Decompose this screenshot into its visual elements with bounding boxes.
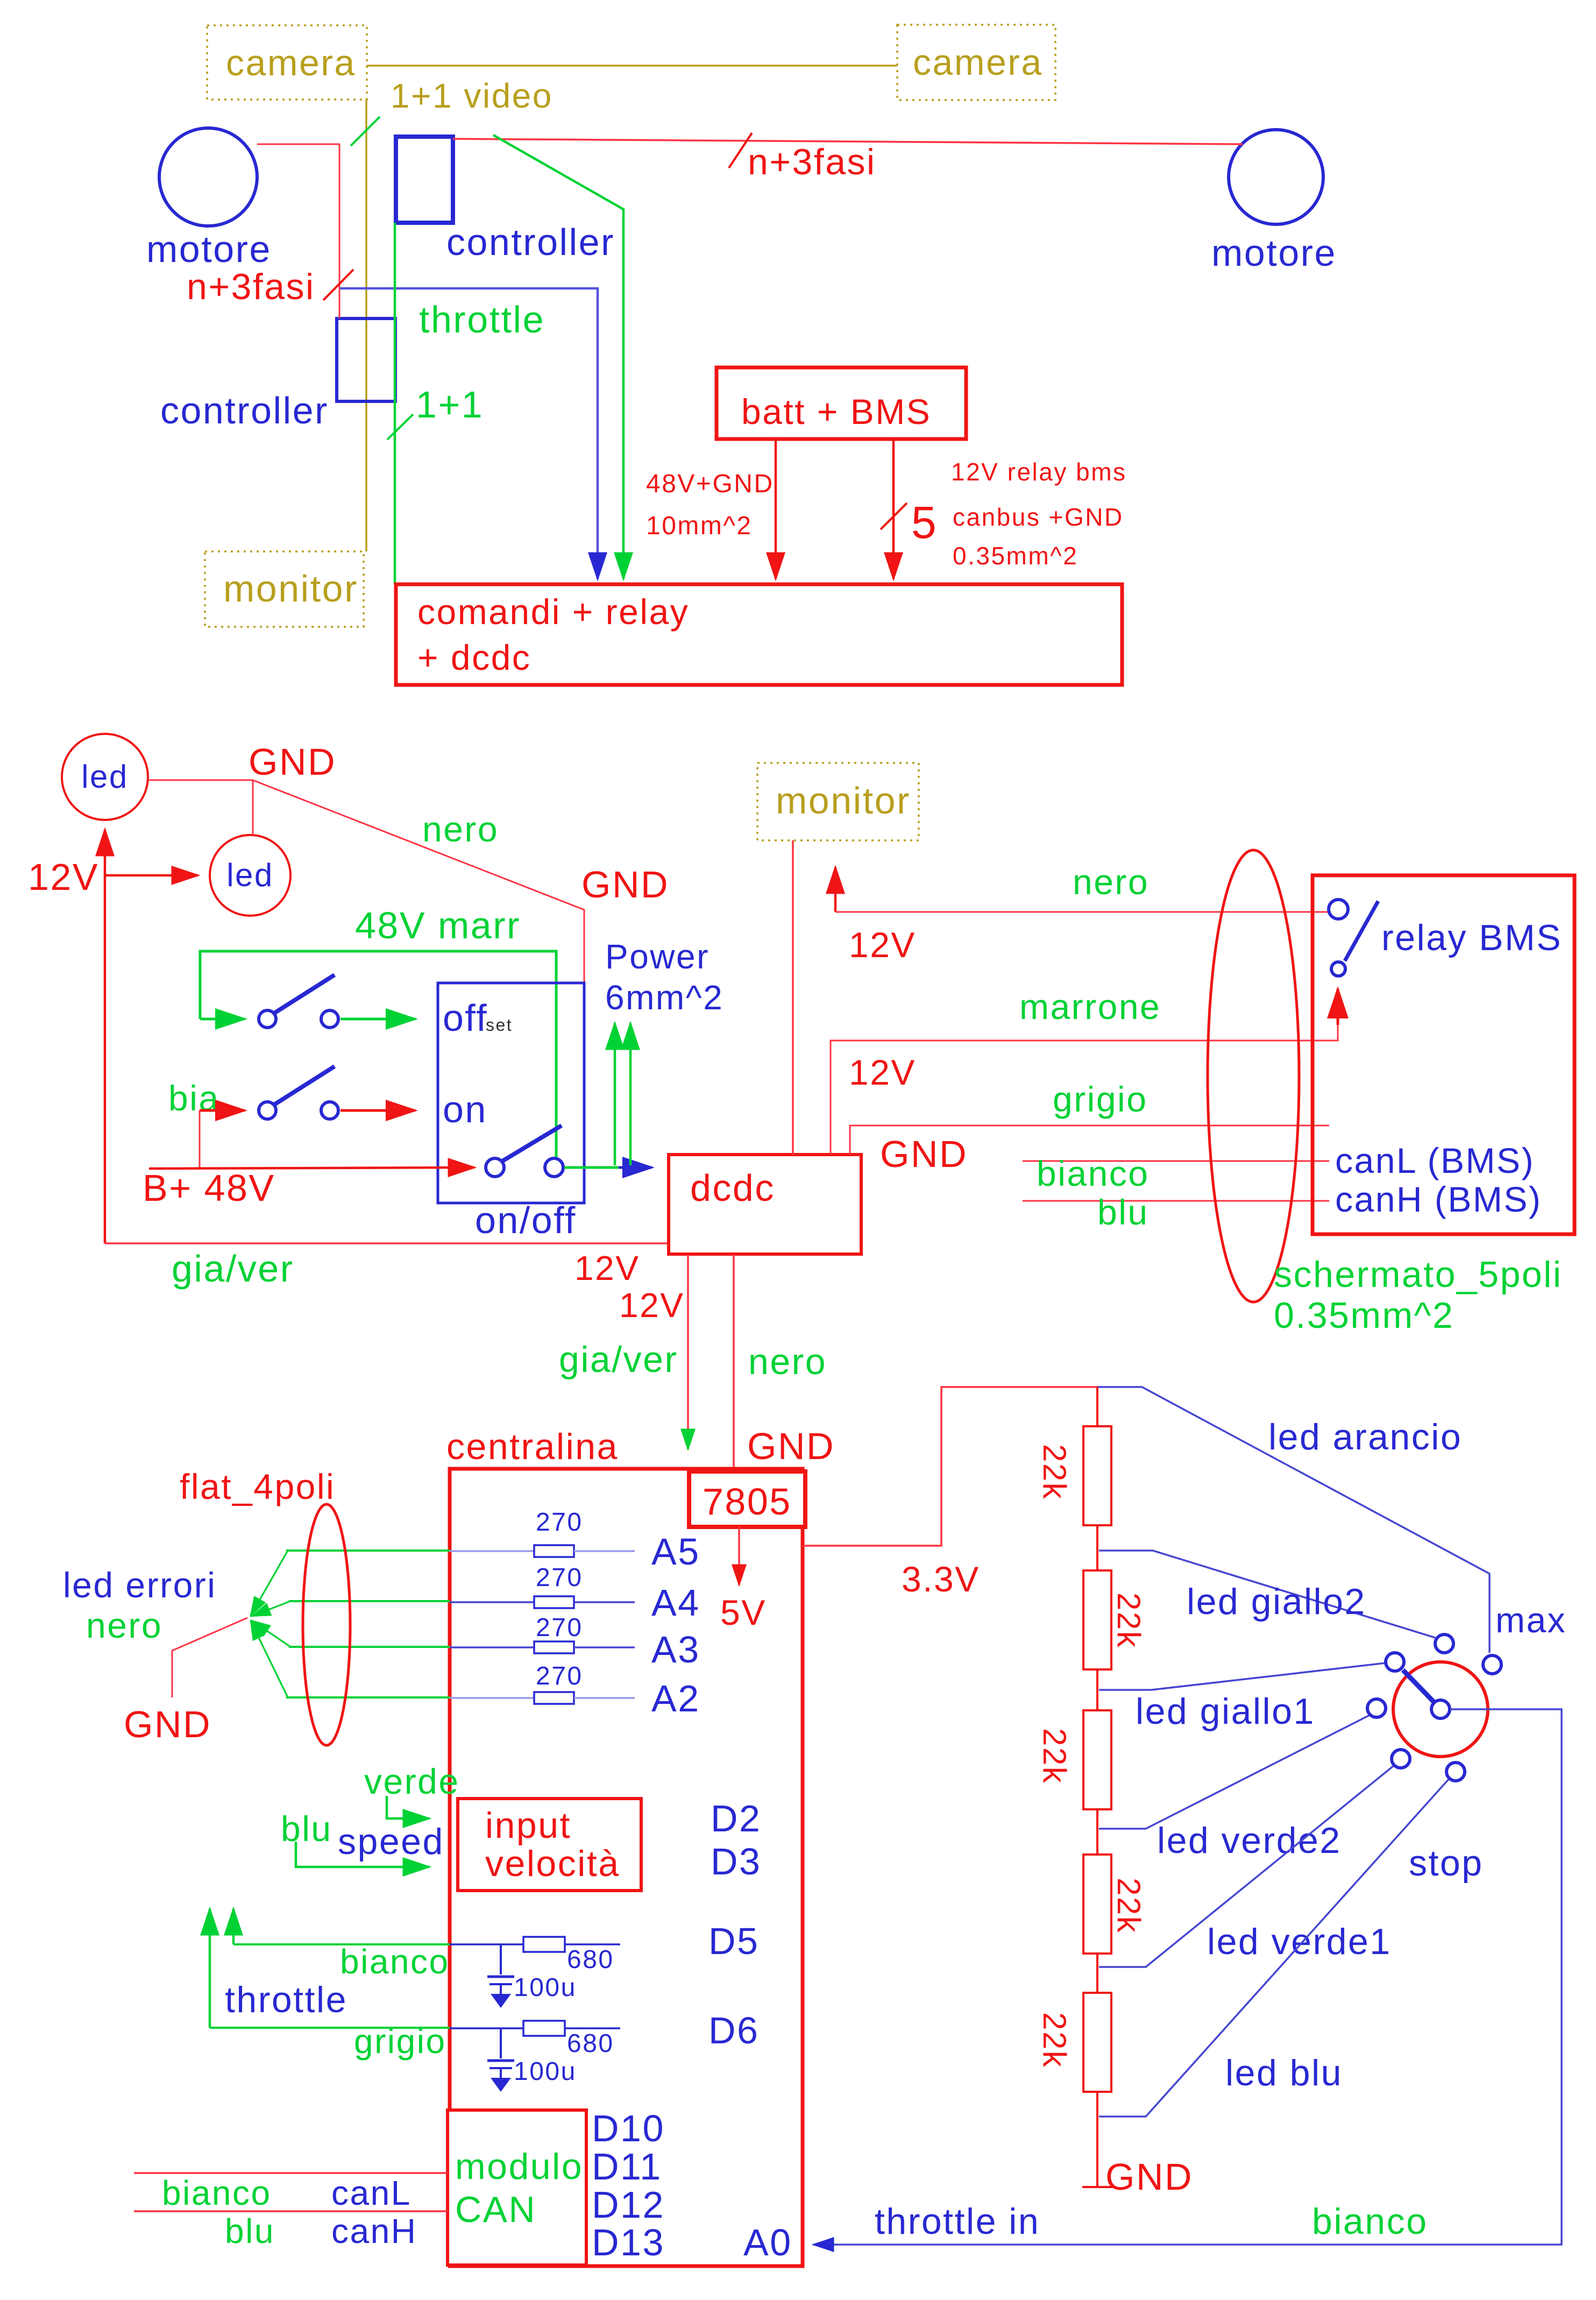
wire video green controller-comandi <box>493 135 623 579</box>
wire B+48V <box>149 1167 474 1169</box>
svg-text:marrone: marrone <box>1019 987 1161 1027</box>
wire led verde2 <box>1099 1715 1370 1829</box>
wire arrow into S2 <box>200 1109 245 1112</box>
svg-text:motore: motore <box>1211 232 1337 274</box>
wire monitor GND <box>792 840 794 1155</box>
svg-text:22k: 22k <box>1111 1593 1147 1648</box>
regulator 7805 <box>689 1471 805 1527</box>
resistor R1 22k <box>1037 1426 1111 1525</box>
input velocita box <box>458 1799 641 1891</box>
svg-text:12V: 12V <box>849 1052 916 1092</box>
svg-text:gia/ver: gia/ver <box>172 1248 294 1290</box>
svg-text:nero: nero <box>86 1605 162 1645</box>
svg-text:blu: blu <box>225 2212 275 2251</box>
rotary pin verde1 <box>1392 1750 1410 1768</box>
rotary pin max <box>1483 1655 1501 1674</box>
wire camera-monitor video <box>365 100 367 551</box>
svg-text:1+1 video: 1+1 video <box>391 76 553 115</box>
svg-text:D13: D13 <box>592 2221 665 2263</box>
camera box (right) <box>897 25 1055 100</box>
wire 12V to led2 <box>105 874 198 877</box>
wire R1-R2 <box>1096 1525 1098 1570</box>
svg-text:A4: A4 <box>651 1582 700 1624</box>
wire throttle green vertical <box>394 223 396 584</box>
rotary switch lever <box>1403 1670 1436 1704</box>
svg-text:48V marr: 48V marr <box>355 904 521 946</box>
svg-text:off: off <box>443 997 488 1039</box>
svg-text:schermato_5poli: schermato_5poli <box>1274 1254 1562 1295</box>
svg-text:12V: 12V <box>619 1286 684 1325</box>
svg-text:100u: 100u <box>514 1973 577 2002</box>
throttle arrows up <box>210 1909 233 2028</box>
svg-text:canH: canH <box>331 2212 417 2251</box>
svg-text:D5: D5 <box>708 1920 759 1962</box>
wire gia/ver 12V to dcdc <box>105 1242 669 1244</box>
dcdc box <box>669 1155 861 1254</box>
svg-text:GND: GND <box>581 864 669 905</box>
svg-text:led blu: led blu <box>1225 2053 1343 2093</box>
wire led verde1 <box>1099 1765 1394 1967</box>
svg-text:+ dcdc: + dcdc <box>417 638 531 677</box>
wire green A4 <box>289 1600 450 1602</box>
wire A0 throttle in <box>813 1709 1562 2245</box>
svg-text:270: 270 <box>536 1613 583 1642</box>
relay BMS box <box>1313 875 1574 1234</box>
wire dcdc 12V down <box>687 1254 689 1449</box>
modulo CAN box <box>448 2110 586 2265</box>
resistor 270 A2 <box>450 1662 700 1719</box>
rotary pin giallo1 <box>1386 1653 1404 1671</box>
wire led1 GND junction <box>149 780 253 835</box>
wire green A5 <box>286 1549 450 1552</box>
svg-text:B+ 48V: B+ 48V <box>143 1167 275 1209</box>
svg-text:100u: 100u <box>514 2057 577 2086</box>
svg-text:D10: D10 <box>592 2107 665 2149</box>
resistor 680 D5 <box>450 1920 759 1974</box>
svg-text:680: 680 <box>567 2029 614 2058</box>
svg-text:stop: stop <box>1409 1843 1484 1884</box>
svg-text:on/off: on/off <box>475 1199 577 1241</box>
centralina box <box>450 1469 803 2266</box>
svg-text:grigio: grigio <box>354 2022 446 2061</box>
svg-text:set: set <box>486 1015 513 1035</box>
svg-text:led verde1: led verde1 <box>1207 1921 1392 1962</box>
svg-text:22k: 22k <box>1037 2012 1073 2068</box>
svg-text:270: 270 <box>536 1662 583 1690</box>
slash n+3fasi (left) <box>323 270 353 300</box>
svg-text:bia: bia <box>168 1078 220 1118</box>
svg-text:10mm^2: 10mm^2 <box>646 512 753 540</box>
svg-text:GND: GND <box>1105 2156 1193 2198</box>
on/off switch box <box>438 983 584 1203</box>
wire nero 12V to relay <box>835 911 1329 913</box>
svg-text:D11: D11 <box>592 2146 662 2188</box>
wire arrow into relay coil <box>1337 989 1339 1025</box>
svg-text:5V: 5V <box>720 1593 767 1632</box>
svg-text:controller: controller <box>446 221 615 263</box>
svg-text:GND: GND <box>880 1133 968 1175</box>
svg-text:throttle: throttle <box>419 299 545 341</box>
svg-text:A0: A0 <box>743 2221 792 2263</box>
svg-text:D6: D6 <box>708 2009 759 2051</box>
svg-text:CAN: CAN <box>455 2189 536 2230</box>
svg-text:5: 5 <box>911 497 938 548</box>
svg-text:270: 270 <box>536 1563 583 1592</box>
wire batt 5pole <box>892 439 895 579</box>
resistor R4 22k <box>1083 1855 1147 1954</box>
svg-text:22k: 22k <box>1111 1878 1147 1934</box>
svg-text:GND: GND <box>124 1703 211 1745</box>
wire 3.3V <box>803 1387 1097 1546</box>
wire arrow into S1 <box>200 1018 245 1021</box>
wire blue arrow into dcdc <box>619 1166 652 1169</box>
svg-text:dcdc: dcdc <box>690 1167 775 1209</box>
svg-text:D12: D12 <box>592 2184 665 2226</box>
svg-text:GND: GND <box>747 1425 835 1467</box>
svg-text:gia/ver: gia/ver <box>559 1339 678 1380</box>
svg-text:D2: D2 <box>711 1797 761 1839</box>
capacitor 100u D5 <box>487 1944 577 2008</box>
svg-text:led arancio: led arancio <box>1268 1417 1462 1457</box>
batt + BMS box <box>717 367 966 439</box>
capacitor 100u D6 <box>487 2028 577 2092</box>
wire dcdc GND down <box>733 1254 735 1471</box>
svg-text:velocità: velocità <box>485 1843 620 1884</box>
svg-text:nero: nero <box>748 1341 827 1382</box>
svg-text:monitor: monitor <box>223 568 358 610</box>
relay BMS switch <box>1329 900 1562 976</box>
svg-text:batt + BMS: batt + BMS <box>741 392 931 431</box>
svg-text:A2: A2 <box>651 1678 700 1719</box>
svg-text:A3: A3 <box>651 1629 700 1671</box>
svg-text:12V: 12V <box>574 1249 640 1287</box>
led D2 circle <box>210 835 290 916</box>
svg-text:verde: verde <box>364 1761 460 1801</box>
resistor 270 A5 <box>450 1508 700 1573</box>
green fan arrows flat_4poli <box>251 1551 290 1697</box>
svg-text:led errori: led errori <box>63 1565 216 1605</box>
controller box (top) <box>396 137 615 263</box>
svg-text:Power: Power <box>605 937 710 976</box>
svg-text:camera: camera <box>913 42 1043 83</box>
wire grigio row <box>210 2027 450 2029</box>
resistor R2 22k <box>1083 1570 1147 1669</box>
switch S2 on <box>259 1066 338 1119</box>
svg-text:680: 680 <box>567 1945 614 1974</box>
wire 3.3V to R1 <box>1096 1387 1098 1426</box>
svg-text:22k: 22k <box>1037 1444 1073 1500</box>
slash 5pole <box>881 503 907 529</box>
wire green A2 <box>286 1696 450 1699</box>
svg-text:canH (BMS): canH (BMS) <box>1335 1179 1542 1219</box>
switch S3 main on/off <box>486 1126 563 1177</box>
wire marrone 12V <box>831 1002 1338 1155</box>
wire verde to input <box>387 1796 429 1818</box>
motore M (left) <box>146 128 272 270</box>
svg-text:led verde2: led verde2 <box>1157 1820 1342 1861</box>
wire 48V marr loop <box>200 951 556 1158</box>
wire nero GND (flat4poli) <box>172 1618 247 1697</box>
svg-text:12V relay bms: 12V relay bms <box>951 458 1127 486</box>
rotary switch body <box>1393 1662 1488 1757</box>
wire blu to input <box>296 1842 429 1867</box>
wire canH (relay) <box>1023 1200 1329 1202</box>
led D1 (left) <box>62 734 148 820</box>
flat_4poli ellipse <box>303 1504 350 1745</box>
wire 5V arrow <box>738 1527 740 1585</box>
svg-text:6mm^2: 6mm^2 <box>605 978 723 1017</box>
svg-text:nero: nero <box>422 809 499 849</box>
wire n+3fasi motore-controller (left) <box>257 144 339 319</box>
svg-text:canL (BMS): canL (BMS) <box>1335 1141 1535 1180</box>
wire S1 to off pin <box>341 1018 415 1021</box>
camera box (left) <box>207 25 367 100</box>
svg-text:bianco: bianco <box>1037 1153 1150 1193</box>
wire bianco row <box>233 1943 450 1945</box>
svg-text:n+3fasi: n+3fasi <box>748 141 876 182</box>
rotary pin stop <box>1446 1763 1465 1781</box>
svg-text:GND: GND <box>249 741 336 783</box>
svg-text:0.35mm^2: 0.35mm^2 <box>1274 1295 1454 1336</box>
svg-text:12V: 12V <box>28 856 99 898</box>
svg-text:blu: blu <box>1097 1192 1149 1232</box>
svg-text:motore: motore <box>146 228 272 270</box>
svg-text:nero: nero <box>1073 862 1149 902</box>
svg-text:input: input <box>485 1805 571 1846</box>
svg-text:led giallo1: led giallo1 <box>1136 1691 1315 1732</box>
svg-text:22k: 22k <box>1037 1728 1073 1784</box>
svg-text:throttle in: throttle in <box>875 2201 1040 2242</box>
power flow arrows <box>615 1023 630 1165</box>
slash 1+1 <box>387 414 413 440</box>
svg-text:canbus +GND: canbus +GND <box>953 503 1124 531</box>
comandi + relay + dcdc box <box>396 584 1122 685</box>
wire canL (modulo) <box>134 2172 448 2174</box>
svg-text:controller: controller <box>160 390 329 431</box>
wire led giallo2 <box>1099 1551 1435 1638</box>
controller box (bottom) <box>160 319 395 431</box>
svg-text:comandi + relay: comandi + relay <box>417 592 689 632</box>
svg-text:modulo: modulo <box>455 2146 583 2187</box>
wire S3 output green <box>564 1166 628 1169</box>
wire canH (modulo) <box>134 2210 448 2212</box>
svg-text:canL: canL <box>331 2174 412 2212</box>
svg-text:7805: 7805 <box>703 1481 792 1523</box>
svg-text:bianco: bianco <box>162 2174 272 2212</box>
svg-text:D3: D3 <box>711 1841 761 1883</box>
svg-text:max: max <box>1495 1600 1566 1640</box>
switch S1 offset <box>259 975 338 1028</box>
rotary pin verde2 <box>1367 1699 1386 1717</box>
resistor 270 A4 <box>450 1563 700 1624</box>
slash n+3fasi (top) <box>729 133 752 168</box>
wire n+3fasi controller-motore (top) <box>453 139 1243 144</box>
wire R3-R4 <box>1096 1809 1098 1855</box>
wire video camera-camera <box>367 65 897 67</box>
resistor R3 22k <box>1037 1710 1111 1809</box>
svg-text:n+3fasi: n+3fasi <box>187 266 315 307</box>
wire bia branch <box>199 1110 201 1167</box>
wire grigio <box>850 1126 1329 1155</box>
wire led arancio <box>1097 1387 1489 1653</box>
label Power 6mm^2 <box>605 937 723 1017</box>
monitor box (right) <box>757 763 919 840</box>
wire R2-R3 <box>1096 1669 1098 1710</box>
svg-text:led: led <box>81 759 129 795</box>
svg-text:blu: blu <box>281 1809 332 1849</box>
rotary pin center <box>1431 1700 1450 1718</box>
svg-text:flat_4poli: flat_4poli <box>180 1467 335 1506</box>
svg-text:1+1: 1+1 <box>416 384 484 426</box>
svg-text:led: led <box>226 857 274 893</box>
svg-text:grigio: grigio <box>1053 1079 1147 1119</box>
wire n+3fasi blue controller-comandi <box>340 288 598 579</box>
resistor 680 D6 <box>450 2009 759 2058</box>
svg-text:bianco: bianco <box>340 1942 450 1981</box>
slash video pair count <box>351 117 380 146</box>
svg-text:led giallo2: led giallo2 <box>1187 1581 1366 1622</box>
wire nero GND diagonal <box>253 780 584 983</box>
motore M (right) <box>1211 130 1337 274</box>
resistor R5 22k <box>1037 1993 1111 2092</box>
svg-text:A5: A5 <box>651 1531 700 1573</box>
monitor box (left) <box>205 551 364 627</box>
svg-text:270: 270 <box>536 1508 583 1537</box>
svg-text:on: on <box>443 1088 487 1130</box>
resistor 270 A3 <box>450 1613 700 1671</box>
wire batt 48V+GND <box>775 439 777 579</box>
wire canL (relay) <box>1023 1160 1329 1162</box>
wire green A3 <box>289 1646 450 1648</box>
svg-text:12V: 12V <box>849 925 916 965</box>
svg-text:0.35mm^2: 0.35mm^2 <box>953 542 1078 570</box>
wire led blu <box>1099 1779 1449 2117</box>
svg-text:bianco: bianco <box>1312 2201 1428 2242</box>
wire S2 to on pin <box>341 1109 415 1112</box>
svg-text:centralina: centralina <box>446 1426 619 1467</box>
svg-text:camera: camera <box>226 43 356 83</box>
svg-text:relay BMS: relay BMS <box>1381 917 1562 958</box>
wire R5 to GND <box>1082 2092 1112 2187</box>
rotary pin giallo2 <box>1435 1634 1453 1653</box>
svg-text:48V+GND: 48V+GND <box>646 470 774 498</box>
svg-text:3.3V: 3.3V <box>902 1559 980 1599</box>
schermato cable ellipse <box>1208 850 1299 1302</box>
wire nero 12V arrow up <box>834 867 837 912</box>
svg-text:speed: speed <box>338 1821 444 1862</box>
svg-text:monitor: monitor <box>776 780 911 822</box>
wire led giallo1 <box>1099 1663 1386 1690</box>
wire R4-R5 <box>1096 1954 1098 1993</box>
wire 12V rail up arrow <box>104 830 107 1243</box>
svg-text:throttle: throttle <box>225 1979 347 2020</box>
